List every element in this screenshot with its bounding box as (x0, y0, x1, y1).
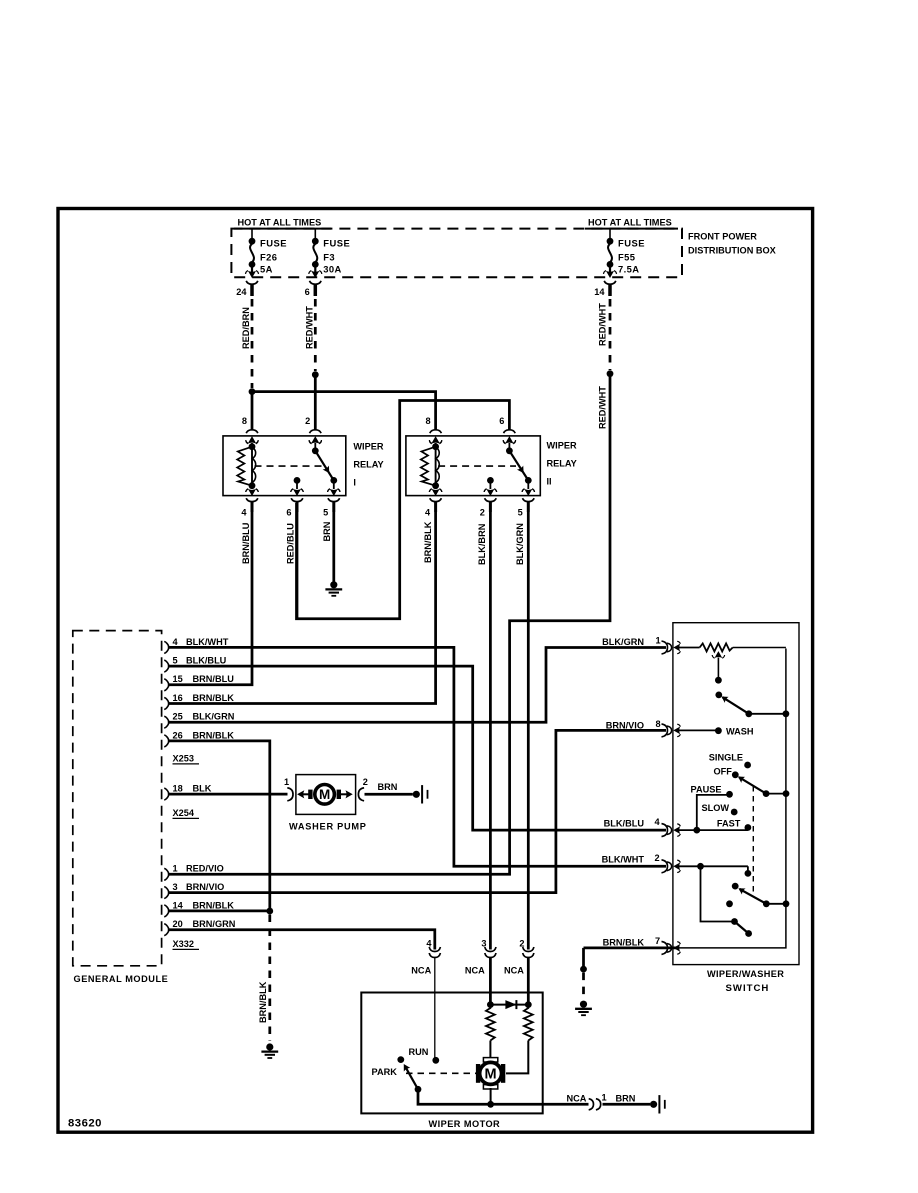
svg-text:1: 1 (173, 864, 178, 874)
svg-text:SLOW: SLOW (702, 803, 730, 813)
svg-text:F26: F26 (260, 252, 277, 263)
svg-text:BRN/BLK: BRN/BLK (423, 521, 433, 563)
svg-text:WIPER/WASHER: WIPER/WASHER (707, 969, 784, 979)
svg-text:II: II (547, 477, 552, 487)
svg-text:BRN/BLK: BRN/BLK (193, 730, 235, 740)
svg-text:30A: 30A (323, 264, 341, 275)
svg-text:RED/VIO: RED/VIO (186, 864, 224, 874)
svg-text:WIPER MOTOR: WIPER MOTOR (429, 1119, 501, 1129)
svg-text:BRN/BLK: BRN/BLK (603, 937, 645, 947)
svg-text:BRN/BLK: BRN/BLK (193, 693, 235, 703)
svg-text:M: M (319, 787, 330, 802)
svg-text:2: 2 (480, 508, 485, 518)
svg-text:BLK/GRN: BLK/GRN (193, 712, 235, 722)
svg-text:NCA: NCA (465, 966, 485, 976)
svg-text:BRN/BLU: BRN/BLU (193, 674, 235, 684)
svg-text:1: 1 (656, 636, 661, 646)
svg-text:2: 2 (519, 939, 524, 949)
svg-text:8: 8 (425, 416, 430, 426)
svg-text:BRN: BRN (322, 521, 332, 541)
svg-text:RED/BLU: RED/BLU (285, 523, 295, 564)
svg-text:3: 3 (173, 882, 178, 892)
svg-text:BLK: BLK (193, 784, 212, 794)
svg-text:WIPER: WIPER (547, 441, 577, 451)
svg-text:16: 16 (173, 693, 183, 703)
svg-text:1: 1 (602, 1092, 607, 1102)
svg-text:FUSE: FUSE (323, 238, 350, 249)
svg-text:2: 2 (363, 777, 368, 787)
svg-text:RED/WHT: RED/WHT (304, 306, 314, 349)
svg-text:WASHER PUMP: WASHER PUMP (289, 822, 367, 832)
svg-text:BRN/VIO: BRN/VIO (606, 720, 644, 730)
svg-text:X332: X332 (173, 939, 194, 949)
svg-text:1: 1 (284, 777, 289, 787)
svg-text:FAST: FAST (717, 819, 741, 829)
svg-text:5: 5 (518, 508, 523, 518)
svg-text:6: 6 (305, 287, 310, 297)
svg-text:FUSE: FUSE (618, 238, 645, 249)
svg-text:HOT AT ALL TIMES: HOT AT ALL TIMES (588, 217, 672, 227)
svg-text:4: 4 (425, 508, 431, 518)
svg-text:3: 3 (481, 939, 486, 949)
svg-text:BRN: BRN (378, 782, 398, 792)
svg-text:PARK: PARK (372, 1067, 398, 1077)
svg-text:83620: 83620 (68, 1117, 102, 1129)
svg-text:BRN/GRN: BRN/GRN (193, 919, 236, 929)
svg-text:BLK/GRN: BLK/GRN (602, 637, 644, 647)
svg-text:HOT AT ALL TIMES: HOT AT ALL TIMES (238, 217, 322, 227)
svg-text:15: 15 (173, 674, 183, 684)
svg-text:WIPER: WIPER (353, 442, 383, 452)
svg-text:SWITCH: SWITCH (726, 983, 770, 994)
svg-text:RED/BRN: RED/BRN (241, 307, 251, 349)
svg-text:2: 2 (305, 416, 310, 426)
svg-text:6: 6 (286, 508, 291, 518)
svg-text:BLK/WHT: BLK/WHT (602, 855, 645, 865)
svg-text:BRN/VIO: BRN/VIO (186, 882, 224, 892)
svg-text:OFF: OFF (714, 767, 733, 777)
svg-text:M: M (485, 1067, 497, 1083)
svg-text:24: 24 (236, 287, 247, 297)
svg-text:4: 4 (173, 637, 179, 647)
svg-text:7.5A: 7.5A (618, 264, 639, 275)
svg-text:BLK/GRN: BLK/GRN (515, 523, 525, 565)
svg-text:BRN/BLU: BRN/BLU (241, 522, 251, 564)
svg-text:F3: F3 (323, 252, 335, 263)
svg-text:NCA: NCA (411, 966, 431, 976)
svg-text:X253: X253 (173, 753, 194, 763)
svg-text:4: 4 (241, 508, 247, 518)
svg-text:RED/WHT: RED/WHT (597, 386, 607, 429)
svg-text:5: 5 (173, 656, 178, 666)
svg-text:RED/WHT: RED/WHT (597, 303, 607, 346)
svg-text:BRN: BRN (616, 1093, 636, 1103)
svg-text:GENERAL MODULE: GENERAL MODULE (74, 974, 169, 984)
svg-text:BRN/BLK: BRN/BLK (258, 981, 268, 1023)
svg-text:FUSE: FUSE (260, 238, 287, 249)
svg-text:NCA: NCA (567, 1093, 587, 1103)
svg-text:BLK/BLU: BLK/BLU (604, 819, 645, 829)
svg-text:RELAY: RELAY (547, 459, 577, 469)
svg-text:SINGLE: SINGLE (709, 753, 743, 763)
svg-text:25: 25 (173, 712, 183, 722)
svg-text:8: 8 (242, 416, 247, 426)
svg-text:PAUSE: PAUSE (691, 785, 722, 795)
svg-text:7: 7 (655, 936, 660, 946)
svg-text:26: 26 (173, 730, 183, 740)
svg-text:RELAY: RELAY (353, 460, 383, 470)
svg-text:RUN: RUN (409, 1047, 429, 1057)
svg-text:4: 4 (426, 939, 432, 949)
svg-text:8: 8 (656, 719, 661, 729)
svg-text:BRN/BLK: BRN/BLK (193, 900, 235, 910)
svg-text:5A: 5A (260, 264, 273, 275)
svg-text:BLK/BLU: BLK/BLU (186, 656, 227, 666)
svg-text:DISTRIBUTION BOX: DISTRIBUTION BOX (688, 245, 777, 255)
svg-text:BLK/BRN: BLK/BRN (477, 523, 487, 565)
svg-text:X254: X254 (173, 808, 195, 818)
svg-text:WASH: WASH (726, 727, 754, 737)
svg-text:BLK/WHT: BLK/WHT (186, 637, 229, 647)
svg-text:I: I (353, 478, 356, 488)
svg-text:2: 2 (655, 853, 660, 863)
svg-text:14: 14 (594, 287, 605, 297)
svg-text:NCA: NCA (504, 966, 524, 976)
svg-text:F55: F55 (618, 252, 635, 263)
svg-text:14: 14 (173, 900, 184, 910)
svg-text:6: 6 (499, 416, 504, 426)
svg-text:18: 18 (173, 784, 183, 794)
svg-text:5: 5 (323, 508, 328, 518)
svg-text:FRONT POWER: FRONT POWER (688, 232, 757, 242)
svg-text:4: 4 (655, 817, 661, 827)
svg-text:20: 20 (173, 919, 183, 929)
